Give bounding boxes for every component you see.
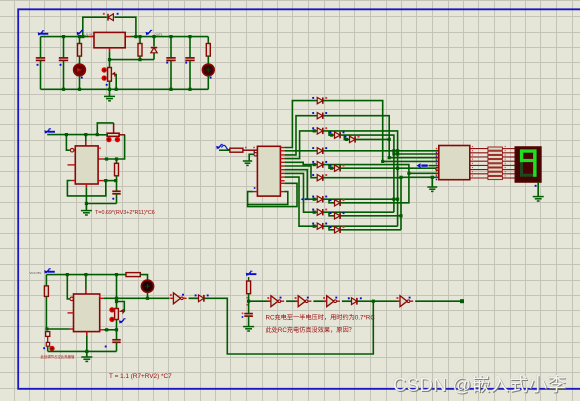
junction xyxy=(313,225,316,228)
junction xyxy=(62,88,65,91)
wire R11 top lead xyxy=(116,159,118,163)
clock source arrow xyxy=(216,144,223,149)
wire bus to driver pinC xyxy=(389,157,439,159)
wire Q7 to row8 xyxy=(285,173,317,212)
junction xyxy=(431,176,434,179)
wire Q5 to row6 xyxy=(285,166,317,178)
junction xyxy=(85,202,88,205)
power arrow VCC1 xyxy=(38,31,49,36)
pin stub U3 top xyxy=(85,290,87,295)
pin stub U2 left low xyxy=(71,180,75,182)
resistor pack stubs left xyxy=(470,148,488,150)
pin stub U3 pin2 xyxy=(73,298,75,300)
wire inv4-D7 xyxy=(342,300,351,302)
wire row9b to bus V5 xyxy=(340,229,401,231)
wire SW1 left lead xyxy=(97,134,107,136)
pin stub U4 Q7 xyxy=(280,172,284,174)
diode row9 a xyxy=(312,223,327,230)
wire Q2 to row2 xyxy=(285,116,317,155)
ground bars display xyxy=(533,197,544,201)
wire RV1 wiper lead xyxy=(115,74,117,89)
push button SW1 xyxy=(107,133,119,136)
wire button loop xyxy=(97,123,113,135)
junction xyxy=(399,214,402,217)
pin stub U4 carry xyxy=(280,182,284,184)
ground bars circuit1 xyxy=(104,96,115,100)
watermark xyxy=(393,371,566,397)
junction xyxy=(66,273,69,276)
pin stub U4 Q4 xyxy=(280,161,284,163)
wire U2 gnd lead xyxy=(85,188,87,204)
resistor RP3 xyxy=(488,155,503,158)
junction xyxy=(381,160,384,163)
wire row2 to bus V2 xyxy=(323,116,389,158)
junction xyxy=(392,149,395,152)
wire row5 to bus V6 xyxy=(323,165,409,174)
svg-text:此处调节占空比亮度值: 此处调节占空比亮度值 xyxy=(41,354,76,359)
inversion bubble U3 pin2 xyxy=(70,297,74,301)
wire Q0 to row1 xyxy=(285,101,317,148)
junction xyxy=(115,297,118,300)
pin stub U2 bottom xyxy=(85,184,87,188)
timer U3 555 xyxy=(74,294,100,332)
wire D3 top lead xyxy=(153,37,155,47)
wire C4 top lead xyxy=(189,37,191,58)
inversion bubble U4 pin13 xyxy=(254,153,257,156)
junction xyxy=(396,149,399,152)
probe arrow RV2 xyxy=(119,319,126,324)
junction xyxy=(188,88,191,91)
wire U4 enable to gnd xyxy=(249,154,254,161)
wire row3b to bus V3 xyxy=(340,135,394,212)
junction xyxy=(330,134,333,137)
wire bus to driver pinG xyxy=(409,172,439,174)
pin marker U4 xyxy=(254,187,256,189)
pin stub U4 Q3 xyxy=(280,158,284,160)
diode row5 a xyxy=(312,161,327,168)
capacitor C3 xyxy=(166,58,175,61)
diode row3 c xyxy=(345,136,360,143)
ground symbol circuit3 xyxy=(86,351,88,357)
resistor RP2 xyxy=(488,151,503,154)
LED D1 xyxy=(74,64,86,76)
diode row8 a xyxy=(312,209,327,216)
wire RV2 bottom lead xyxy=(116,320,118,330)
wire chain end xyxy=(415,300,462,302)
button RV1 down xyxy=(102,75,107,80)
capacitor C2 xyxy=(59,58,68,61)
junction xyxy=(146,297,149,300)
wire C7 bottom lead xyxy=(116,342,118,351)
inversion bubble U2 pin2 xyxy=(70,148,74,152)
junction xyxy=(396,167,399,170)
wire RV2 wiper loop xyxy=(117,302,125,312)
wire R7 bottom lead xyxy=(45,296,47,329)
wire feedback loop xyxy=(205,298,374,354)
junction xyxy=(138,35,141,38)
wire inverter1 out xyxy=(189,297,199,299)
wire D5 bottom lead xyxy=(147,292,149,298)
wire R3 to D4 xyxy=(207,56,209,64)
timer U2 555 xyxy=(75,146,98,184)
pin stub U4 Q5 xyxy=(280,165,284,167)
junction xyxy=(396,198,399,201)
svg-text:RC充电至一半电压时，用时约为0.7*RC: RC充电至一半电压时，用时约为0.7*RC xyxy=(266,314,376,322)
diode row8 b xyxy=(330,212,345,219)
junction xyxy=(85,350,88,353)
wire Q3 to row3 xyxy=(285,131,317,159)
junction xyxy=(313,198,316,201)
ground bars U4 xyxy=(243,161,252,165)
button SW1 left actuator xyxy=(106,137,111,142)
pin stub U2 pin2 xyxy=(74,149,75,151)
wire Q4 to row5 xyxy=(285,162,317,164)
pin stub U4 reset xyxy=(253,191,258,193)
wire row3 step2 xyxy=(344,135,349,139)
wire C1 top lead xyxy=(40,37,42,58)
inversion bubble driver pin xyxy=(436,167,439,170)
resistor R1 xyxy=(78,44,82,57)
svg-text:T = 1.1 (R7+RV2) *C7: T = 1.1 (R7+RV2) *C7 xyxy=(109,373,172,380)
wire end terminal xyxy=(460,299,464,303)
wire top rail right xyxy=(131,36,209,38)
wire bus to driver pinH xyxy=(401,176,439,178)
wire C2 bottom lead xyxy=(63,60,65,89)
resistor R9 xyxy=(247,281,251,294)
pin stub U4 Q8 xyxy=(280,176,284,178)
junction xyxy=(78,88,81,91)
wire row3 to bus V4 xyxy=(323,131,398,226)
pin stub U3 pin3 xyxy=(100,297,104,299)
capacitor C6 xyxy=(112,191,120,194)
junction xyxy=(115,88,118,91)
pin ticks resistor pack xyxy=(472,146,473,147)
7-segment display DS1 xyxy=(515,147,541,182)
wire row7 in xyxy=(307,198,317,200)
wire C2 top lead xyxy=(63,37,65,58)
ground symbol circuit2 xyxy=(85,204,87,211)
svg-text:OUT1: OUT1 xyxy=(155,33,163,37)
inverter U6E xyxy=(396,296,413,307)
wire row5b into bubble xyxy=(436,168,439,170)
junction xyxy=(392,198,395,201)
svg-text:......: ...... xyxy=(127,323,132,327)
wire D3 bottom lead xyxy=(153,53,155,60)
pin stub U3 bottom xyxy=(86,332,88,336)
wire R7 top lead xyxy=(45,275,47,286)
inverter U6D xyxy=(323,296,340,307)
resistor RP7 xyxy=(488,172,503,175)
resistor RP8 xyxy=(488,176,503,179)
switch SW2 upper contact xyxy=(46,332,50,337)
junction xyxy=(169,35,172,38)
wire rail circuit2 xyxy=(47,134,97,136)
wire row8b to bus V5 xyxy=(340,215,401,217)
ground bars RC xyxy=(243,327,254,331)
junction xyxy=(313,129,316,132)
resistor R11 xyxy=(115,163,119,176)
wire R3 top lead xyxy=(207,37,209,44)
wire row9 to bus V4 xyxy=(323,225,398,227)
button RV1 up xyxy=(102,67,107,72)
junction xyxy=(108,58,111,61)
wire row4 to driver pinA xyxy=(323,150,439,152)
wire gnd net circuit2 xyxy=(86,203,116,205)
power arrow VCC3 xyxy=(44,269,55,274)
wire output net circuit3 xyxy=(104,297,170,299)
junction xyxy=(108,88,111,91)
pin marker U3 xyxy=(99,295,101,297)
resistor pack stubs right xyxy=(502,148,515,150)
junction xyxy=(188,35,191,38)
svg-text:T=0.69*(RV3+2*R11)*C6: T=0.69*(RV3+2*R11)*C6 xyxy=(95,210,155,216)
junction xyxy=(407,172,410,175)
pin stub SW1 right xyxy=(119,134,125,136)
resistor RP6 xyxy=(488,168,503,171)
pin stub U1 bottom xyxy=(109,48,111,52)
wire RC to inverter2 xyxy=(249,300,271,302)
diode row2 xyxy=(312,112,327,119)
junction xyxy=(247,300,250,303)
diode D7 xyxy=(348,297,362,304)
pin stub U4 right reset xyxy=(280,191,284,193)
diode row1 xyxy=(312,97,327,104)
junction xyxy=(388,156,391,159)
ground bars driver xyxy=(427,187,437,191)
junction xyxy=(169,88,172,91)
wire R1 top lead xyxy=(79,37,81,44)
wire row5b to driver pinF xyxy=(340,167,439,169)
inverter U6C xyxy=(295,296,312,307)
wire row8 step xyxy=(329,212,334,216)
svg-text:VCC=5V: VCC=5V xyxy=(30,271,42,275)
wire SW2 bottom lead xyxy=(47,346,49,351)
wire D7 out xyxy=(358,300,374,302)
button RV2 up xyxy=(109,307,114,312)
pin ticks driver left xyxy=(436,148,438,150)
junction xyxy=(104,179,107,182)
potentiometer RV2 xyxy=(115,309,119,320)
wire rail circuit3 left xyxy=(46,274,126,276)
wire R2 top lead xyxy=(139,37,141,44)
wire threshold lower xyxy=(103,180,116,182)
wire row7 to bus V4 xyxy=(323,198,398,200)
resistor R7 xyxy=(44,286,48,297)
diode D2 xyxy=(103,13,119,21)
wire C8 top lead xyxy=(248,301,250,313)
wire C8 bottom lead xyxy=(248,316,250,327)
pin stub U4 Q9 xyxy=(280,180,284,182)
button SW1 right actuator xyxy=(115,137,120,142)
junction xyxy=(65,133,68,136)
resistor R8 xyxy=(126,273,140,277)
junction xyxy=(313,163,316,166)
wire driver gnd lead xyxy=(431,177,433,187)
diode row6 xyxy=(312,174,327,181)
diode row7 a xyxy=(312,196,327,203)
wire U2 top pin xyxy=(85,135,87,142)
potentiometer RV1 xyxy=(108,68,112,82)
wire U3 gnd lead xyxy=(86,336,88,351)
button RV2 down xyxy=(109,317,114,322)
junction xyxy=(399,176,402,179)
diode row9 b xyxy=(330,226,345,233)
capacitor C8 xyxy=(244,314,253,317)
wire Q6 to row7 xyxy=(285,170,308,200)
pin stub U2 top xyxy=(85,142,87,146)
wire U1 pin3 down xyxy=(109,52,111,60)
pin stub U4 Q2 xyxy=(280,154,284,156)
pin stub U4 Q6 xyxy=(280,169,284,171)
op-amp timer U1 555 xyxy=(94,32,125,47)
junction xyxy=(81,35,84,38)
power arrow VCC2 xyxy=(44,129,55,134)
junction xyxy=(138,58,141,61)
junction xyxy=(372,300,375,303)
wire bottom rail circuit1 xyxy=(41,88,209,90)
wire row7b to bus V6 xyxy=(340,173,409,203)
wire carry loop xyxy=(248,183,297,206)
wire C1 bottom lead xyxy=(40,60,42,89)
wire VCC to R9 xyxy=(248,277,250,281)
wire U3 trigger xyxy=(67,275,69,299)
junction xyxy=(114,179,117,182)
wire inv3-inv4 xyxy=(313,300,326,302)
wire net label to driver xyxy=(429,165,439,167)
wire U3 top pin xyxy=(85,275,87,290)
wire Q1 to row4 xyxy=(285,150,317,152)
capacitor C1 xyxy=(36,58,45,61)
button SW2 actuator xyxy=(49,346,54,351)
driver U5 4511 xyxy=(439,146,470,180)
junction xyxy=(105,157,108,160)
junction xyxy=(152,35,155,38)
wire row3c to bus V2 xyxy=(355,138,389,140)
junction xyxy=(62,35,65,38)
pin markers U4 clock xyxy=(245,147,247,149)
wire D1 bottom lead xyxy=(79,76,81,90)
pin stub U4 Q0 xyxy=(280,147,284,149)
wire reset loop xyxy=(248,192,288,205)
wire R8 to D5 xyxy=(140,275,147,281)
zener diode D3 xyxy=(151,48,157,53)
pin stub U3 pin5 open xyxy=(68,312,74,314)
net label arrow driver xyxy=(417,163,428,168)
wire SW2 middle xyxy=(47,336,49,342)
junction xyxy=(78,35,81,38)
wire RV1 bottom lead xyxy=(109,81,111,89)
junction xyxy=(134,35,137,38)
junction xyxy=(105,328,108,331)
wire RV2 to U3 xyxy=(104,329,117,331)
capacitor C4 xyxy=(185,58,194,61)
junction xyxy=(392,152,395,155)
diode D6 xyxy=(195,294,209,301)
junction xyxy=(330,167,333,170)
wire C3 top lead xyxy=(170,37,172,58)
junction xyxy=(345,138,348,141)
wire row9 step xyxy=(329,226,334,230)
wire R2 bottom lead xyxy=(139,56,141,60)
wire SW1 to threshold xyxy=(103,135,124,159)
voltage probe arrow A xyxy=(77,30,84,35)
junction xyxy=(115,157,118,160)
ground symbol circuit1 xyxy=(109,89,111,96)
wire R11 bottom lead xyxy=(116,176,118,181)
junction xyxy=(388,138,391,141)
pin stub U1 left xyxy=(89,36,95,38)
wire bypass left xyxy=(83,17,107,36)
wire display gnd lead xyxy=(537,182,539,196)
wire trigger to U2 xyxy=(66,135,69,151)
wire control net xyxy=(110,59,155,61)
wire C7 top lead xyxy=(116,330,118,340)
wire C6 top lead xyxy=(116,181,118,192)
junction xyxy=(396,152,399,155)
junction xyxy=(115,300,118,303)
wire discharge loop xyxy=(67,181,105,196)
junction xyxy=(115,328,118,331)
ground bars circuit3 xyxy=(81,357,92,361)
capacitor C7 xyxy=(112,340,120,343)
power arrow VCC4 xyxy=(246,271,257,276)
wire row1 to bus V1 xyxy=(323,101,383,162)
inverter U6B xyxy=(267,296,284,307)
wire inv2-inv3 xyxy=(286,300,297,302)
junction xyxy=(96,133,99,136)
pin stub U4 Q1 xyxy=(280,150,284,152)
pin marker U2 xyxy=(99,147,101,149)
pin stub U2 pin6b xyxy=(98,180,103,182)
resistor R10 xyxy=(230,148,243,152)
wire row8 to bus V3 xyxy=(323,211,394,213)
net label arrow row7 xyxy=(301,197,310,201)
resistor R3 xyxy=(206,44,210,57)
wire bottom net circuit3 xyxy=(48,350,117,352)
wire to inverter5 xyxy=(373,300,399,302)
wire top rail left xyxy=(41,36,89,38)
junction xyxy=(45,327,48,330)
wire bus to driver pinD xyxy=(383,160,439,162)
junction xyxy=(115,273,118,276)
wire row6 to bus V5 xyxy=(323,178,401,230)
resistor RP5 xyxy=(488,164,503,167)
pin stub U3 pin6 xyxy=(100,329,104,331)
inverter U6A xyxy=(170,293,187,304)
pin stub U2 pin6 xyxy=(98,158,103,160)
wire RV1 top lead xyxy=(109,60,111,68)
pin stub U4 clock xyxy=(243,149,258,151)
wire RV2 top lead xyxy=(116,275,118,309)
resistor RP4 xyxy=(488,160,503,163)
pin stub U3 left low xyxy=(70,328,74,330)
diode row5 b xyxy=(330,165,345,172)
diode row4 xyxy=(312,147,327,154)
junction xyxy=(84,133,87,136)
pin stub SW1 top xyxy=(113,123,115,133)
ground bars circuit2 xyxy=(81,211,92,215)
pin markers R9 xyxy=(246,297,248,299)
wire bus to driver pinB xyxy=(394,153,439,155)
svg-text:此处RC充电仿真没效果，原因？: 此处RC充电仿真没效果，原因？ xyxy=(266,326,355,334)
switch SW2 lower contact xyxy=(46,342,49,346)
diode row3 a xyxy=(312,127,327,134)
wire row5 step xyxy=(329,165,334,169)
pin stub U2 pin5 open xyxy=(68,164,76,166)
wire clock in xyxy=(219,149,230,151)
resistor RP1 xyxy=(488,147,503,150)
wire Q8 to row9 xyxy=(285,177,317,226)
